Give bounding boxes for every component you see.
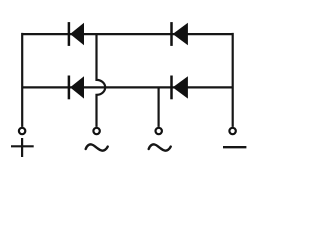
diode D4 bottom-right (cathode bar left, pointing left) (172, 76, 188, 100)
wire: AC2 vertical from bottom bus down to second ~ terminal (158, 87, 160, 127)
diode D1 top-left (cathode bar left, pointing left) (69, 22, 84, 46)
terminal circle: + output (19, 128, 25, 134)
wire: top bus from top-left corner to top-right corner (22, 33, 233, 35)
terminal circle: AC1 ~ input (93, 128, 99, 134)
label: + symbol under left terminal (11, 138, 34, 157)
label: ~ symbol under AC2 terminal (149, 144, 171, 150)
diode D2 top-right (cathode bar left, pointing left) (172, 22, 188, 46)
terminal circle: AC2 ~ input (156, 128, 162, 134)
terminal circle: - output (229, 128, 235, 134)
diode D3 bottom-left (cathode bar left, pointing left) (69, 76, 84, 100)
wire: bottom bus from left vertical to right vertical (22, 86, 233, 88)
wire: AC1 vertical from top bus down to first ~ terminal, with hop over bottom bus (97, 34, 106, 127)
label: ~ symbol under AC1 terminal (86, 144, 108, 150)
wire: left vertical from top-left corner down to + terminal (21, 33, 23, 127)
wire: right vertical from top-right corner down to - terminal (232, 33, 234, 127)
label: - symbol under right terminal (223, 146, 246, 148)
